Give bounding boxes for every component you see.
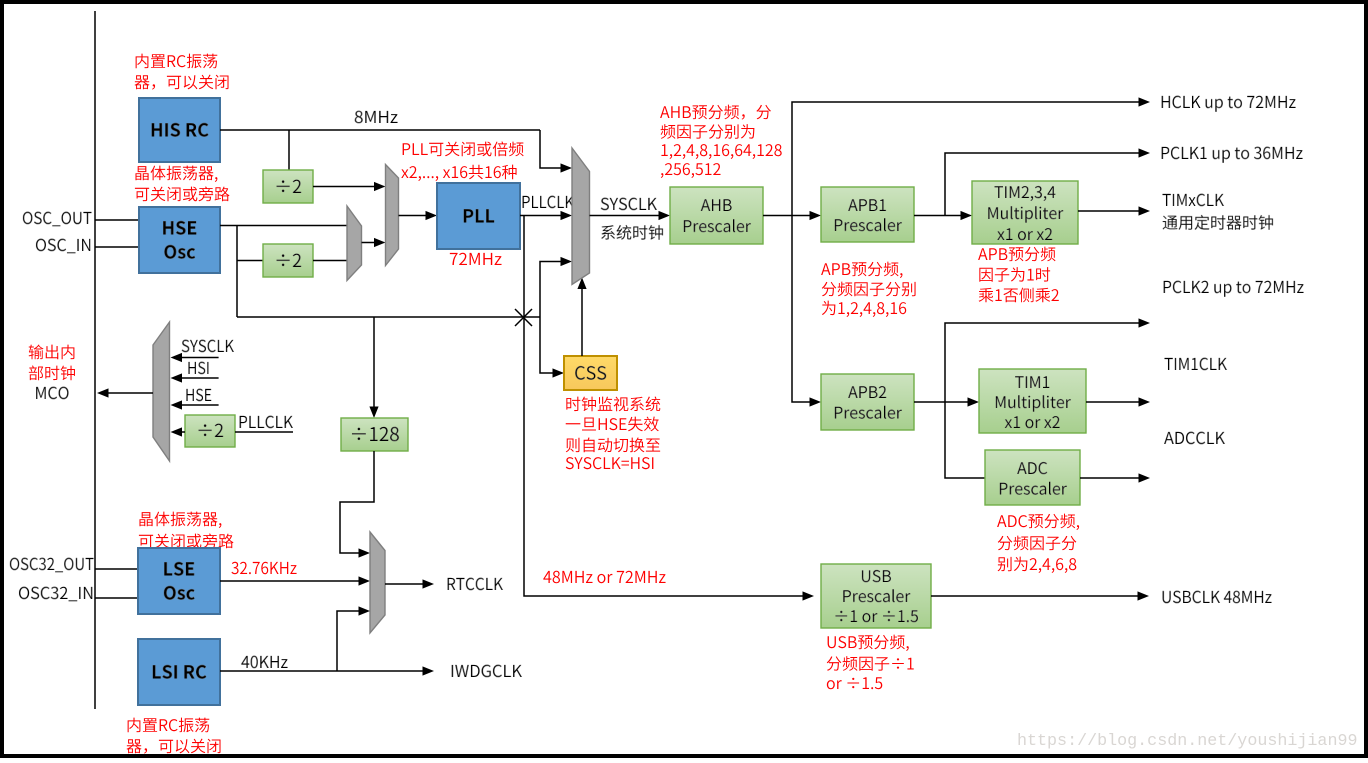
label HSE Osc [163, 221, 196, 235]
label PCLK2 up to 72MHz [1164, 281, 1304, 297]
arrow mco sysclk [171, 353, 183, 362]
label MCO [36, 387, 68, 400]
wire HSE low rail [237, 316, 540, 318]
arrow PCLK2 [1139, 318, 1151, 327]
arrow IWDGCLK [423, 666, 435, 675]
wire MCO output [104, 392, 153, 394]
label 32.76KHz [231, 562, 296, 575]
label div2 c [199, 424, 224, 437]
text annotation HSI line2 [135, 75, 229, 90]
label TIM1 [1015, 376, 1049, 388]
text annotation USB line3 [827, 677, 882, 689]
text annotation TIM234 line2 [979, 267, 1050, 282]
label TIM234 [995, 186, 1056, 201]
text annotation APB1 line3 [822, 301, 906, 317]
prescaler block ADC [985, 450, 1080, 505]
oscillator block LSI RC [138, 639, 220, 705]
label TIMxCLK [1162, 194, 1223, 207]
arrow into TIM1 [968, 397, 980, 406]
arrow into APB1 [810, 211, 822, 220]
wire mco sysclk in [181, 357, 219, 359]
wire USB out [931, 595, 1141, 597]
wire mux2 to pll mux [362, 242, 379, 244]
label PLL [464, 209, 494, 222]
text annotation ADC line2 [998, 536, 1077, 551]
text annotation HSE line2 [135, 186, 230, 201]
label mco HSI [188, 362, 208, 375]
wire TIM1 out [1086, 401, 1142, 403]
arrow into APB2 [810, 397, 822, 406]
divider div128 [341, 418, 408, 451]
text annotation CSS line2 [566, 417, 659, 432]
text annotation AHB line4 [661, 163, 721, 178]
label mco HSE [186, 389, 211, 402]
mux RTC selector [370, 532, 385, 633]
arrow into rtc mux bottom [359, 606, 371, 615]
wire pllmux to PLL [399, 215, 431, 217]
arrow into sys mux top [561, 163, 573, 172]
css block CSS [564, 356, 617, 390]
wire div2 to pll mux [313, 186, 378, 188]
arrow MCO out [97, 388, 109, 397]
mux MCO selector [153, 322, 170, 461]
label AHB Prescaler [701, 199, 732, 211]
prescaler block APB2 [821, 374, 914, 430]
arrow into USB prescaler [803, 591, 815, 600]
wire LSE out [220, 580, 362, 582]
label OSC32_IN [19, 587, 92, 602]
arrow into rtc mux top [359, 548, 371, 557]
text annotation HSI line1 [136, 54, 218, 69]
arrow into PLL [426, 211, 438, 220]
multiplier block TIM234 [972, 181, 1078, 244]
label 48MHz or 72MHz [543, 571, 665, 584]
label div2 b [277, 254, 302, 267]
wire RTCCLK out [385, 583, 426, 585]
arrow into sys mux third [561, 257, 573, 266]
text annotation CSS line4 [566, 457, 654, 469]
text annotation PLL line2 [401, 165, 516, 181]
text annotation APB1 line1 [821, 262, 902, 278]
text annotation USB line1 [828, 635, 909, 651]
arrow RTCCLK [423, 579, 435, 588]
text annotation AHB line3 [661, 144, 781, 159]
wire PLLCLK down to USB [524, 216, 806, 597]
divider div2 HSI [263, 170, 313, 203]
arrow into sys mux mid [561, 211, 573, 220]
wire HSI drop to mux [540, 130, 563, 168]
text annotation ADC line3 [998, 557, 1077, 573]
arrow TIMxCLK [1139, 206, 1151, 215]
left boundary bus line [94, 11, 96, 709]
label CSS [575, 366, 606, 380]
label 8MHz [355, 111, 398, 123]
wire mco pllclk in [181, 431, 293, 433]
wire HSE direct to mux2 [220, 225, 347, 227]
label mco PLLCLK [240, 416, 293, 429]
label div128 [352, 427, 399, 441]
text annotation LSE line1 [139, 512, 221, 528]
wire mco hsi in [181, 377, 219, 379]
label div2 a [277, 180, 302, 193]
text annotation APB1 line2 [822, 282, 916, 297]
wire ADC out [1080, 477, 1142, 479]
arrow mco hsi [171, 373, 183, 382]
text annotation AHB line2 [661, 124, 755, 139]
wire div128 to rtc mux [340, 451, 374, 553]
text annotation LSE line2 [139, 533, 234, 548]
text annotation LSI line1 [128, 718, 210, 733]
wire AHB out [763, 215, 813, 217]
label LSE Osc [164, 562, 194, 576]
mux PLL source selector [386, 165, 399, 266]
wire HSI drop to div2 [288, 130, 290, 170]
wire HSE branch down [236, 226, 238, 318]
label PLLCLK [523, 196, 574, 209]
wire HSE down to CSS [540, 317, 556, 373]
arrow into pll mux top [374, 182, 386, 191]
wire CSS up to sysmux bottom [581, 281, 583, 356]
wire div2b to mux2 [313, 260, 347, 262]
label OSC32_OUT [10, 558, 94, 573]
multiplier block TIM1 [979, 369, 1086, 433]
text annotation MCO line1 [29, 345, 75, 360]
label APB2 Prescaler [848, 386, 886, 398]
wire LSI up to rtc mux [337, 611, 362, 671]
prescaler block USB [821, 564, 931, 628]
arrow into AHB prescaler [659, 211, 671, 220]
arrow into CSS [553, 368, 565, 377]
label HIS RC [152, 123, 209, 137]
wire mco hse in [181, 404, 219, 406]
wire LSI out [220, 670, 426, 672]
text annotation TIM234 line3 [979, 288, 1059, 303]
arrow PCLK1 [1139, 148, 1151, 157]
text annotation LSI line2 [127, 739, 221, 754]
label RTCCLK [448, 578, 503, 591]
prescaler block AHB [670, 187, 763, 244]
text annotation TIM234 line1 [978, 247, 1055, 262]
wire HSE up to sysmux [540, 262, 563, 318]
arrow into div128 [369, 407, 378, 419]
text annotation CSS line1 [566, 397, 660, 412]
label HCLK up to 72MHz [1162, 96, 1296, 112]
wire OSC32_IN [95, 597, 138, 599]
arrow TIM1CLK [1139, 397, 1151, 406]
oscillator block HSE Osc [139, 207, 220, 273]
label OSC_IN [36, 239, 90, 254]
label ADC Prescaler [1017, 462, 1047, 474]
wire PLL out to sysmux [520, 215, 563, 217]
svg-text:https://blog.csdn.net/youshiji: https://blog.csdn.net/youshijian99 [1017, 732, 1357, 751]
text annotation PLL line1 [403, 141, 524, 156]
label SYSCLK [601, 198, 657, 211]
text annotation MCO line2 [29, 366, 75, 381]
label timer clock chinese [1163, 215, 1273, 230]
pll block PLL [437, 183, 520, 249]
arrow into sys mux bottom [577, 278, 586, 290]
text annotation AHB line1 [660, 105, 771, 120]
arrow USBCLK [1138, 591, 1150, 600]
divider div2 HSE [263, 244, 313, 277]
wire OSC32_OUT [95, 568, 138, 570]
label APB1 Prescaler [848, 199, 886, 211]
label 40KHz [241, 656, 287, 669]
wire div128 feed [373, 317, 375, 410]
label TIM1CLK [1164, 358, 1226, 371]
arrow mco pllclk [171, 427, 183, 436]
wire APB2 out [914, 323, 1142, 478]
wire HCLK rail [792, 102, 1142, 402]
crossover mark X [515, 309, 532, 326]
label PCLK1 up to 36MHz [1162, 147, 1303, 163]
text annotation HSE line1 [135, 166, 217, 182]
arrow HCLK [1139, 97, 1151, 106]
wire HSE to div2b [237, 260, 263, 262]
arrow into rtc mux mid [359, 576, 371, 585]
oscillator block HIS RC [139, 98, 220, 162]
label 72MHz [450, 253, 502, 265]
wire OSC_IN [95, 246, 139, 248]
divider div2 MCO [185, 415, 235, 447]
arrow into pll mux bottom [374, 238, 386, 247]
arrow ADCCLK [1139, 473, 1151, 482]
label OSC_OUT [23, 212, 92, 227]
label LSI RC [153, 665, 207, 679]
text annotation USB line2 [827, 656, 914, 671]
oscillator block LSE Osc [138, 548, 220, 614]
mux HSE selector [347, 206, 362, 281]
wire HSI 8MHz output [220, 129, 540, 131]
text annotation CSS line3 [566, 438, 660, 453]
label sys clock chinese [601, 225, 663, 240]
label USBCLK 48MHz [1163, 591, 1272, 604]
arrow into TIM234 [961, 211, 973, 220]
wire sysclk out [590, 215, 663, 217]
mux system clock selector [572, 148, 590, 285]
label IWDGCLK [452, 665, 522, 678]
label mco SYSCLK [182, 340, 234, 353]
wire APB1 out [914, 153, 1142, 216]
wire TIM234 out [1078, 210, 1142, 212]
prescaler block APB1 [821, 187, 914, 242]
arrow mco hse [171, 400, 183, 409]
label ADCCLK [1164, 432, 1225, 445]
wire OSC_OUT [95, 219, 139, 221]
label USB Prescaler [862, 570, 891, 582]
text annotation ADC line1 [997, 514, 1079, 530]
